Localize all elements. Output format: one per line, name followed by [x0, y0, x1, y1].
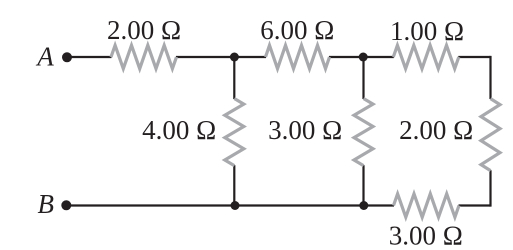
svg-text:2.00 Ω: 2.00 Ω: [107, 15, 181, 45]
svg-text:1.00 Ω: 1.00 Ω: [390, 16, 464, 46]
svg-text:2.00 Ω: 2.00 Ω: [399, 115, 473, 145]
svg-text:B: B: [38, 189, 55, 219]
svg-text:3.00 Ω: 3.00 Ω: [389, 220, 463, 250]
svg-text:6.00 Ω: 6.00 Ω: [260, 15, 334, 45]
svg-text:4.00 Ω: 4.00 Ω: [142, 115, 216, 145]
svg-text:3.00 Ω: 3.00 Ω: [268, 115, 342, 145]
svg-text:A: A: [35, 42, 54, 72]
